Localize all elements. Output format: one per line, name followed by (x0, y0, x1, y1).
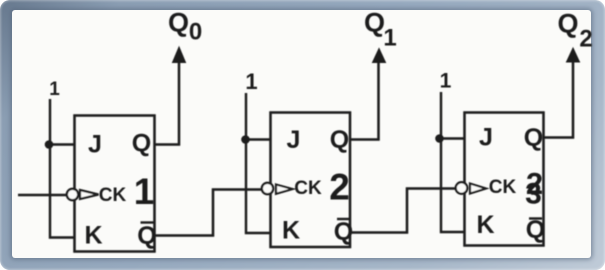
svg-text:0: 0 (189, 19, 202, 46)
svg-text:1: 1 (383, 25, 396, 52)
svg-text:K: K (84, 221, 102, 249)
arrowhead Q0 (173, 47, 186, 63)
wire: Qbar of FF1 to CK of FF2 (155, 190, 267, 236)
svg-text:Q: Q (330, 126, 349, 154)
arrowhead Q2 (567, 48, 580, 62)
wire: J input branch (FF1) (49, 143, 75, 145)
wire: J input branch (FF2) (246, 138, 271, 140)
svg-text:CK: CK (294, 178, 322, 199)
svg-text:J: J (287, 126, 301, 154)
svg-text:J: J (88, 130, 102, 158)
svg-text:Q: Q (364, 7, 385, 37)
wire: constant-1 vertical (FF3) (441, 92, 465, 232)
overbar of Qbar (FF2) (337, 218, 350, 220)
wire: constant-1 vertical (FF1) (50, 99, 75, 238)
svg-text:Q: Q (132, 129, 151, 157)
svg-text:Q: Q (137, 222, 156, 250)
svg-text:K: K (282, 216, 300, 244)
clock inversion bubble (FF1) (67, 189, 78, 200)
wire: Qbar of FF2 to CK of FF3 (350, 189, 455, 233)
clock input wire (left edge to bubble) (18, 194, 67, 197)
clock edge triangle (FF1) (80, 190, 99, 199)
arrowhead Q1 (373, 49, 386, 63)
svg-text:CK: CK (489, 177, 517, 198)
clock inversion bubble (FF2) (262, 183, 273, 194)
junction dot (FF3 J) (435, 134, 444, 143)
clock inversion bubble (FF3) (456, 182, 468, 194)
wire: Q output of FF2 up to Q1 arrow (350, 60, 379, 140)
svg-text:2: 2 (329, 167, 350, 208)
wire: J input branch (FF3) (440, 137, 465, 139)
svg-text:J: J (479, 123, 493, 151)
svg-text:1: 1 (49, 79, 60, 100)
svg-text:Q: Q (526, 216, 545, 244)
svg-text:1: 1 (245, 69, 257, 94)
svg-text:Q: Q (168, 8, 189, 38)
junction dot (FF2 J) (241, 135, 250, 144)
clock edge triangle (FF3) (470, 184, 486, 194)
svg-text:1: 1 (440, 70, 452, 93)
svg-text:CK: CK (99, 185, 127, 206)
flip-flop box FF1 (75, 116, 155, 252)
wire: constant-1 vertical (FF2) (246, 93, 271, 233)
svg-text:Q: Q (524, 124, 543, 152)
wire: Q output of FF3 up to Q2 arrow (544, 60, 574, 138)
overbar of Qbar (FF1) (141, 221, 154, 223)
wire: Q output of FF1 up to Q0 arrow (155, 60, 180, 145)
svg-text:K: K (476, 211, 494, 239)
svg-text:2: 2 (579, 26, 592, 53)
svg-text:Q: Q (557, 9, 578, 39)
junction dot (FF1 J) (45, 140, 54, 149)
svg-text:3: 3 (525, 178, 542, 211)
flip-flop box FF2 (271, 113, 351, 248)
flip-flop box FF3 (465, 113, 544, 246)
overbar of Qbar (FF3) (529, 217, 542, 219)
svg-text:1: 1 (134, 171, 155, 212)
clock edge triangle (FF2) (276, 185, 293, 194)
